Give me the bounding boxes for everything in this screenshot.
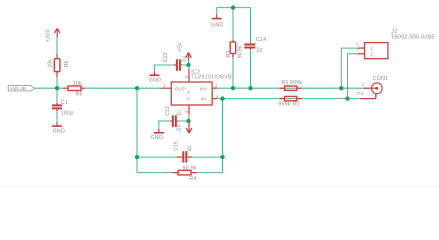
svg-text:2: 2: [184, 110, 189, 113]
svg-text:5: 5: [184, 76, 189, 79]
svg-text:1: 1: [356, 41, 359, 46]
svg-text:GND: GND: [53, 129, 65, 135]
svg-text:10k: 10k: [48, 59, 54, 68]
svg-text:2p: 2p: [256, 47, 262, 53]
svg-text:1: 1: [370, 46, 373, 51]
svg-text:R3: R3: [226, 51, 232, 58]
svg-text:C1: C1: [61, 100, 68, 106]
svg-text:2p: 2p: [187, 146, 193, 152]
svg-text:1u: 1u: [176, 110, 182, 116]
svg-text:909k: 909k: [278, 102, 291, 108]
svg-text:2*4: 2*4: [357, 91, 364, 96]
svg-text:90.9k: 90.9k: [238, 45, 244, 58]
svg-text:909k: 909k: [290, 80, 303, 86]
svg-text:C15: C15: [173, 141, 179, 151]
svg-text:GND: GND: [149, 78, 161, 84]
svg-text:R1: R1: [282, 80, 289, 86]
svg-text:+5V: +5V: [177, 42, 183, 52]
svg-text:IN-: IN-: [201, 97, 208, 102]
svg-text:2: 2: [370, 52, 373, 57]
svg-text:1u: 1u: [181, 56, 187, 62]
svg-text:3: 3: [215, 83, 218, 88]
svg-text:R2: R2: [293, 102, 300, 108]
svg-text:1: 1: [362, 82, 365, 87]
svg-text:AN/1.2B: AN/1.2B: [10, 86, 26, 91]
svg-text:GND: GND: [151, 135, 163, 141]
svg-text:>: >: [187, 90, 190, 96]
svg-text:GND: GND: [211, 23, 223, 29]
svg-text:TB002-500-02BE: TB002-500-02BE: [391, 34, 436, 40]
svg-text:R5: R5: [76, 91, 83, 97]
svg-text:R4: R4: [189, 176, 196, 182]
svg-text:TLV9101IDBVR: TLV9101IDBVR: [191, 75, 232, 81]
svg-text:CON1: CON1: [373, 76, 389, 82]
svg-text:10k: 10k: [73, 81, 82, 87]
svg-text:100p: 100p: [61, 111, 74, 117]
svg-text:90.9k: 90.9k: [183, 165, 197, 171]
svg-text:+3V3: +3V3: [45, 30, 51, 42]
svg-text:IN+: IN+: [200, 86, 208, 91]
svg-text:C14: C14: [256, 37, 266, 43]
svg-text:1: 1: [163, 83, 166, 88]
svg-text:-5V: -5V: [177, 124, 183, 133]
svg-text:4: 4: [216, 94, 219, 99]
svg-text:>: >: [187, 96, 190, 102]
svg-text:R6: R6: [64, 61, 70, 68]
svg-text:C12: C12: [163, 53, 169, 63]
svg-text:C13: C13: [165, 106, 171, 116]
